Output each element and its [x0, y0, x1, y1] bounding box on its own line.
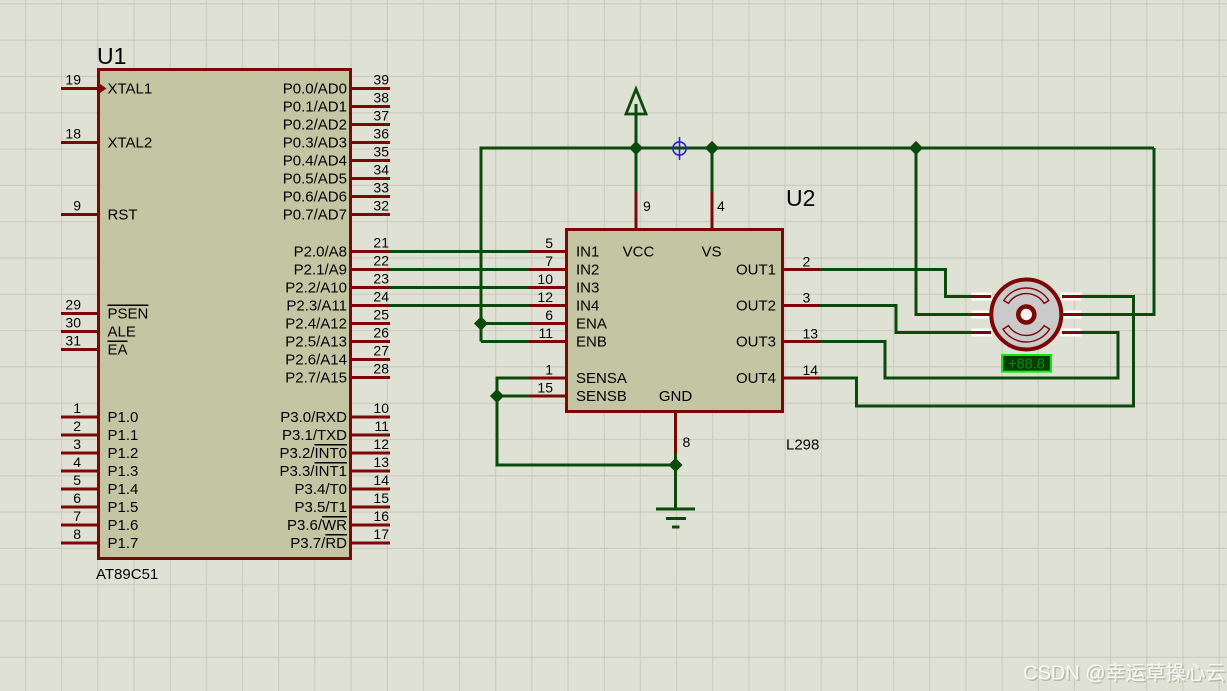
svg-text:7: 7 [545, 253, 553, 269]
svg-text:2: 2 [803, 254, 811, 270]
svg-text:15: 15 [373, 490, 389, 506]
U1 reference label [97, 43, 126, 69]
wire SENS to ground run [496, 464, 678, 467]
svg-text:P1.6: P1.6 [108, 517, 139, 534]
wire ENB branch [481, 340, 529, 343]
U2 pin 9 VCC stub [623, 192, 655, 261]
U2 pin 5 IN1 stub [529, 235, 599, 261]
U1 pin 25 P2.4/A12 stub [285, 307, 390, 333]
wire OUT4 to motor top-right [820, 297, 1134, 407]
svg-text:35: 35 [373, 144, 389, 160]
svg-text:6: 6 [545, 307, 553, 323]
U2 pin 15 SENSB stub [529, 380, 627, 406]
svg-text:P3.0/RXD: P3.0/RXD [280, 409, 347, 426]
svg-text:12: 12 [537, 289, 553, 305]
svg-text:ENB: ENB [576, 334, 607, 351]
svg-text:8: 8 [683, 434, 691, 450]
svg-text:P1.0: P1.0 [108, 409, 139, 426]
svg-text:36: 36 [373, 126, 389, 142]
svg-text:CSDN @幸运草操心云: CSDN @幸运草操心云 [1023, 662, 1226, 685]
svg-text:OUT3: OUT3 [736, 334, 776, 351]
svg-text:11: 11 [538, 325, 553, 341]
U1 pin 39 P0.0/AD0 stub [283, 72, 390, 98]
U1 pin 16 P3.6/WR stub [287, 508, 390, 534]
svg-text:18: 18 [65, 126, 81, 142]
svg-text:P2.7/A15: P2.7/A15 [285, 370, 347, 387]
svg-text:27: 27 [373, 343, 389, 359]
svg-text:P3.3/INT1: P3.3/INT1 [279, 463, 347, 480]
wire ENA branch [481, 322, 529, 325]
svg-text:P1.5: P1.5 [108, 499, 139, 516]
U1 pin 33 P0.6/AD6 stub [283, 180, 390, 206]
U1 pin 6 P1.5 stub [61, 490, 138, 516]
U2 pin 1 SENSA stub [529, 362, 627, 388]
svg-text:14: 14 [803, 362, 819, 378]
wire GND pin drop [674, 453, 677, 509]
svg-text:P0.6/AD6: P0.6/AD6 [283, 189, 347, 206]
wire VS pin drop [711, 148, 714, 192]
svg-text:3: 3 [803, 290, 811, 306]
svg-text:P2.6/A14: P2.6/A14 [285, 352, 347, 369]
U1 pin 19 XTAL1 stub [61, 72, 152, 98]
svg-text:6: 6 [73, 490, 81, 506]
svg-text:EA: EA [108, 342, 128, 359]
svg-text:16: 16 [373, 508, 389, 524]
svg-text:L298: L298 [786, 437, 819, 454]
svg-text:P1.4: P1.4 [108, 481, 139, 498]
svg-text:30: 30 [65, 315, 81, 331]
U1 pin 37 P0.2/AD2 stub [283, 108, 390, 134]
svg-text:IN1: IN1 [576, 244, 599, 261]
svg-text:8: 8 [73, 526, 81, 542]
svg-text:VS: VS [701, 244, 721, 261]
svg-text:9: 9 [73, 198, 81, 214]
U1 pin 34 P0.5/AD5 stub [283, 162, 390, 188]
svg-text:P2.2/A10: P2.2/A10 [285, 280, 347, 297]
U1 pin 17 P3.7/RD stub [290, 526, 390, 552]
U1 pin 32 P0.7/AD7 stub [283, 198, 390, 224]
wire rail to motor mid-left [916, 148, 972, 315]
junction at VCC drop [629, 141, 643, 155]
svg-text:5: 5 [73, 472, 81, 488]
ground symbol [656, 509, 695, 527]
svg-text:OUT4: OUT4 [736, 370, 776, 387]
svg-text:28: 28 [373, 361, 389, 377]
wire VCC pin drop [635, 148, 638, 192]
svg-text:P1.3: P1.3 [108, 463, 139, 480]
svg-text:10: 10 [537, 271, 553, 287]
svg-text:P3.6/WR: P3.6/WR [287, 517, 347, 534]
svg-text:12: 12 [373, 436, 389, 452]
svg-text:P2.4/A12: P2.4/A12 [285, 316, 347, 333]
svg-text:XTAL2: XTAL2 [108, 135, 153, 152]
U1 pin 10 P3.0/RXD stub [280, 400, 390, 426]
motor M1 stepper body [971, 278, 1082, 352]
U1 pin 30 ALE stub [61, 315, 136, 341]
svg-text:9: 9 [643, 198, 651, 214]
svg-text:32: 32 [373, 198, 389, 214]
svg-text:21: 21 [373, 235, 389, 251]
wire P2.2 to IN3 [390, 286, 529, 289]
U1 pin 1 P1.0 stub [61, 400, 138, 426]
svg-text:25: 25 [373, 307, 389, 323]
svg-text:GND: GND [659, 388, 693, 405]
svg-text:IN2: IN2 [576, 262, 599, 279]
svg-text:P3.1/TXD: P3.1/TXD [282, 427, 347, 444]
svg-text:OUT1: OUT1 [736, 262, 776, 279]
svg-text:P0.1/AD1: P0.1/AD1 [283, 99, 347, 116]
svg-text:4: 4 [73, 454, 81, 470]
U2 pin 12 IN4 stub [529, 289, 599, 315]
U1 pin 8 P1.7 stub [61, 526, 138, 552]
svg-text:7: 7 [73, 508, 81, 524]
svg-text:23: 23 [373, 271, 389, 287]
svg-text:13: 13 [373, 454, 389, 470]
U1 pin 26 P2.5/A13 stub [285, 325, 390, 351]
svg-text:2: 2 [73, 418, 81, 434]
svg-text:OUT2: OUT2 [736, 298, 776, 315]
junction at rail motor branch [909, 141, 923, 155]
svg-text:P2.0/A8: P2.0/A8 [294, 244, 347, 261]
U1 pin 29 PSEN stub [61, 297, 148, 323]
svg-text:P0.2/AD2: P0.2/AD2 [283, 117, 347, 134]
svg-text:U1: U1 [97, 43, 126, 69]
U2 pin 10 IN3 stub [529, 271, 599, 297]
U1 pin 38 P0.1/AD1 stub [283, 90, 390, 116]
U1 pin 12 P3.2/INT0 stub [279, 436, 390, 462]
svg-text:ENA: ENA [576, 316, 607, 333]
wire SENSB branch [497, 395, 529, 398]
U1 pin 18 XTAL2 stub [61, 126, 152, 152]
junction at ENA branch [474, 316, 488, 330]
junction at GND net [668, 458, 682, 472]
svg-text:U2: U2 [786, 185, 815, 211]
U1 pin 28 P2.7/A15 stub [285, 361, 390, 387]
U2 pin 11 ENB stub [529, 325, 607, 351]
U1 pin 23 P2.2/A10 stub [285, 271, 390, 297]
svg-text:P3.4/T0: P3.4/T0 [294, 481, 347, 498]
U1 pin 27 P2.6/A14 stub [285, 343, 390, 369]
svg-text:33: 33 [373, 180, 389, 196]
svg-text:15: 15 [537, 380, 553, 396]
svg-text:SENSB: SENSB [576, 388, 627, 405]
svg-text:RST: RST [108, 207, 138, 224]
svg-text:P1.1: P1.1 [108, 427, 139, 444]
power symbol VCC arrow [626, 89, 646, 148]
U1 pin 9 RST stub [61, 198, 138, 224]
wire OUT3 to motor bottom-right [820, 333, 1118, 379]
wire SENS vertical [496, 377, 499, 466]
U2 reference label [786, 185, 815, 211]
U1 pin 36 P0.3/AD3 stub [283, 126, 390, 152]
svg-text:1: 1 [73, 400, 81, 416]
svg-text:17: 17 [373, 526, 389, 542]
svg-text:24: 24 [373, 289, 389, 305]
U2 value label L298 [786, 437, 819, 454]
svg-text:VCC: VCC [623, 244, 655, 261]
U1 pin 22 P2.1/A9 stub [294, 253, 390, 279]
svg-text:4: 4 [717, 198, 725, 214]
U2 pin 14 OUT4 stub [736, 362, 820, 387]
svg-text:SENSA: SENSA [576, 370, 627, 387]
svg-text:PSEN: PSEN [108, 306, 149, 323]
svg-text:37: 37 [373, 108, 389, 124]
U1 pin 14 P3.4/T0 stub [294, 472, 390, 498]
svg-text:P3.5/T1: P3.5/T1 [294, 499, 347, 516]
U1 pin 5 P1.4 stub [61, 472, 138, 498]
origin marker node [673, 137, 686, 160]
svg-text:P0.7/AD7: P0.7/AD7 [283, 207, 347, 224]
U2 pin 6 ENA stub [529, 307, 607, 333]
wire P2.1 to IN2 [390, 268, 529, 271]
svg-text:39: 39 [373, 72, 389, 88]
svg-text:IN3: IN3 [576, 280, 599, 297]
svg-text:P1.7: P1.7 [108, 535, 139, 552]
wire P2.3 to IN4 [390, 304, 529, 307]
wire rail left vertical to ENA/ENB [480, 147, 483, 342]
wire OUT2 to motor bottom-left [820, 306, 972, 333]
svg-text:P2.5/A13: P2.5/A13 [285, 334, 347, 351]
wire OUT1 to motor top-left [820, 270, 972, 297]
svg-text:P2.3/A11: P2.3/A11 [286, 298, 347, 315]
U2 pin 7 IN2 stub [529, 253, 599, 279]
U1 pin 4 P1.3 stub [61, 454, 138, 480]
wire P2.0 to IN1 [390, 250, 529, 253]
svg-text:P1.2: P1.2 [108, 445, 139, 462]
U1 pin 21 P2.0/A8 stub [294, 235, 390, 261]
wire rail to motor mid-right [1081, 148, 1154, 315]
svg-text:1: 1 [545, 362, 553, 378]
U1 pin 7 P1.6 stub [61, 508, 138, 534]
svg-text:P3.2/INT0: P3.2/INT0 [279, 445, 347, 462]
svg-text:31: 31 [65, 333, 81, 349]
svg-text:P0.4/AD4: P0.4/AD4 [283, 153, 347, 170]
U1 pin 3 P1.2 stub [61, 436, 138, 462]
svg-text:26: 26 [373, 325, 389, 341]
svg-text:AT89C51: AT89C51 [96, 566, 158, 583]
U2 pin 3 OUT2 stub [736, 290, 820, 315]
svg-text:11: 11 [374, 418, 389, 434]
junction at VS drop [705, 141, 719, 155]
svg-text:19: 19 [65, 72, 81, 88]
U1 pin 24 P2.3/A11 stub [286, 289, 390, 315]
svg-text:ALE: ALE [108, 324, 136, 341]
U2 pin 13 OUT3 stub [736, 326, 820, 351]
U1 pin 31 EA stub [61, 333, 128, 359]
U1 pin 11 P3.1/TXD stub [282, 418, 390, 444]
U1 pin 35 P0.4/AD4 stub [283, 144, 390, 170]
svg-text:3: 3 [73, 436, 81, 452]
svg-text:P2.1/A9: P2.1/A9 [294, 262, 347, 279]
svg-text:XTAL1: XTAL1 [108, 81, 153, 98]
svg-text:5: 5 [545, 235, 553, 251]
svg-text:29: 29 [65, 297, 81, 313]
svg-text:P0.3/AD3: P0.3/AD3 [283, 135, 347, 152]
U1 pin 2 P1.1 stub [61, 418, 138, 444]
U2 pin 8 GND stub [659, 388, 693, 453]
svg-text:+88.8: +88.8 [1008, 357, 1045, 373]
U2 pin 2 OUT1 stub [736, 254, 820, 279]
wire VCC power rail horizontal [481, 147, 1154, 150]
junction at SENSB [490, 389, 504, 403]
U1 value label AT89C51 [96, 566, 158, 583]
U2 pin 4 VS stub [701, 192, 725, 261]
IC U2 L298 body [567, 230, 783, 412]
svg-text:IN4: IN4 [576, 298, 599, 315]
svg-text:10: 10 [373, 400, 389, 416]
wire SENSA branch [497, 377, 529, 380]
svg-text:P3.7/RD: P3.7/RD [290, 535, 347, 552]
svg-text:14: 14 [373, 472, 389, 488]
IC U1 AT89C51 body [99, 70, 351, 559]
U1 pin 13 P3.3/INT1 stub [279, 454, 390, 480]
svg-text:13: 13 [803, 326, 819, 342]
motor rpm display value +88.8 [1002, 355, 1051, 373]
svg-text:34: 34 [373, 162, 389, 178]
svg-text:P0.0/AD0: P0.0/AD0 [283, 81, 347, 98]
U1 pin 15 P3.5/T1 stub [294, 490, 390, 516]
svg-text:P0.5/AD5: P0.5/AD5 [283, 171, 347, 188]
svg-text:38: 38 [373, 90, 389, 106]
svg-text:22: 22 [373, 253, 389, 269]
